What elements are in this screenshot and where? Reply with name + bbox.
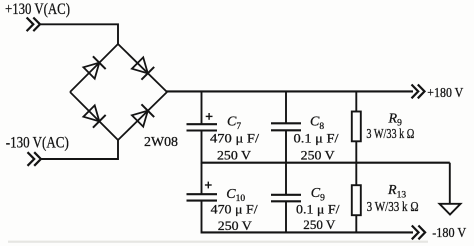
ground symbol — [440, 204, 461, 215]
wire bridge edge left-to-bottom — [70, 92, 118, 140]
capacitor C10 (electrolytic 470uF/250V) plates — [187, 194, 218, 200]
svg-text:3 W/33 k Ω: 3 W/33 k Ω — [367, 199, 419, 214]
diode D3 (bridge lower-left, left vertex to bottom vertex) — [83, 105, 106, 128]
polarity + mark of C10 — [205, 182, 212, 189]
wire R13 bottom to negative rail — [355, 215, 357, 233]
diode D4 (bridge lower-right, bottom vertex to right vertex) — [131, 104, 154, 127]
wire C9 bottom to negative rail — [285, 201, 287, 233]
svg-text:250 V: 250 V — [217, 147, 252, 162]
capacitor C9 (0.1uF/250V) plates — [271, 195, 301, 202]
wire bridge edge left-to-top — [70, 44, 118, 92]
diode D2 (bridge upper-right, top vertex to right vertex) — [131, 57, 154, 80]
wire middle rail to ground drop — [449, 163, 451, 204]
svg-text:0.1 μ F/: 0.1 μ F/ — [294, 131, 339, 146]
input arrow chevrons (-130 V AC) — [28, 152, 41, 166]
svg-text:250 V: 250 V — [301, 148, 336, 163]
wire from +130V input to bridge top vertex — [40, 24, 118, 45]
svg-text:470 μ F/: 470 μ F/ — [210, 130, 259, 145]
wire negative rail (to -180 V output) — [202, 231, 414, 233]
svg-text:2W08: 2W08 — [144, 135, 178, 150]
svg-text:0.1 μ F/: 0.1 μ F/ — [296, 202, 340, 217]
svg-text:250 V: 250 V — [303, 217, 336, 232]
input arrow chevrons (+130 V AC) — [27, 18, 40, 32]
svg-text:250 V: 250 V — [218, 218, 253, 233]
diode D1 (bridge upper-left, left vertex to top vertex) — [83, 56, 106, 79]
wire C7 bottom to middle rail — [201, 131, 203, 164]
wire bridge edge top-to-right — [118, 44, 167, 92]
wire middle rail down to capacitor C9 — [285, 163, 287, 195]
resistor R9 (3W/33k) body — [352, 112, 361, 142]
wire middle rail down to resistor R13 — [355, 163, 357, 186]
wire middle common rail — [202, 162, 450, 164]
wire top rail down to resistor R9 — [355, 91, 357, 111]
output arrow chevrons (-180 V) — [412, 226, 425, 240]
wire top rail down to capacitor C8 — [285, 91, 287, 123]
resistor R13 (3W/33k) body — [352, 185, 361, 215]
svg-text:3 W/33 k Ω: 3 W/33 k Ω — [366, 126, 414, 141]
svg-text:+130 V(AC): +130 V(AC) — [5, 1, 70, 18]
polarity + mark of C7 — [206, 113, 213, 120]
capacitor C7 (electrolytic 470uF/250V) plates — [187, 124, 218, 130]
output arrow chevrons (+180 V) — [412, 85, 425, 99]
wire from -130V input to bridge bottom vertex — [41, 139, 118, 159]
wire middle rail down to capacitor C10 — [201, 163, 203, 194]
scan artifact streak at bottom — [8, 241, 428, 243]
wire top rail down to capacitor C7 — [201, 91, 203, 123]
svg-text:470 μ F/: 470 μ F/ — [211, 201, 258, 216]
wire C8 bottom to middle rail — [285, 130, 287, 163]
capacitor C8 (0.1uF/250V) plates — [271, 123, 301, 130]
wire positive rail (bridge right vertex to +180 V output) — [166, 90, 413, 92]
wire bridge edge bottom-to-right — [118, 92, 167, 140]
svg-text:-130 V(AC): -130 V(AC) — [6, 135, 69, 152]
wire R9 bottom to middle rail — [355, 141, 357, 163]
svg-text:+180 V: +180 V — [427, 86, 463, 101]
svg-text:-180 V: -180 V — [432, 226, 466, 241]
wire C10 bottom to negative rail — [201, 201, 203, 234]
